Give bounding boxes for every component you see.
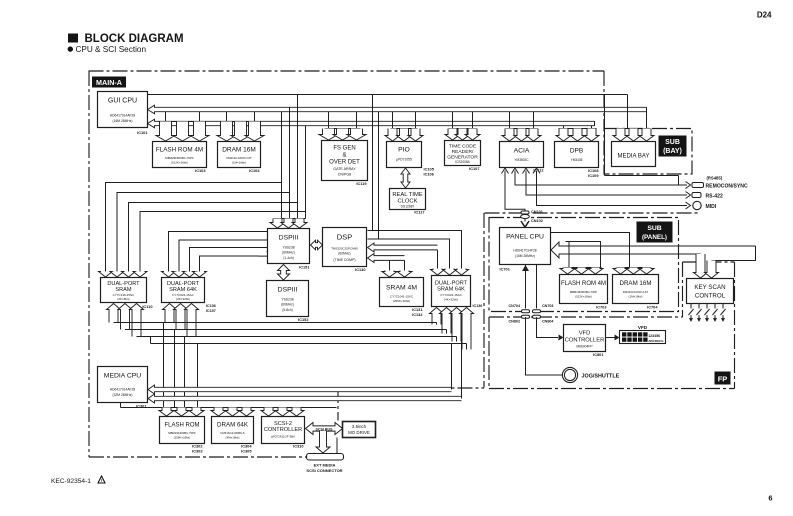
label IC117 [414, 210, 424, 215]
svg-text:(4K×32bit): (4K×32bit) [444, 298, 458, 302]
svg-text:(4M×16bit): (4M×16bit) [226, 436, 240, 440]
wire DP64KR bend b [446, 330, 448, 334]
svg-text:CN102: CN102 [531, 219, 543, 223]
memory FLASH ROM 4M panel IC703 [560, 275, 608, 304]
wire drop DSPIII d [305, 126, 307, 219]
wire comb MEDIA BAY [617, 128, 651, 130]
svg-text:KEY SCAN: KEY SCAN [694, 284, 725, 291]
wire L DP64KL a [169, 232, 268, 272]
wire lbus 329 [125, 329, 447, 331]
bus arrow KEYSCAN a [694, 254, 708, 278]
bus arrow DSPIII b [281, 219, 296, 229]
svg-text:CONTROLLER: CONTROLLER [264, 427, 302, 433]
wire media cpu stub [120, 403, 122, 408]
bus arrow FSGEN c [347, 129, 366, 141]
wire ACIA-CN101 [505, 171, 525, 212]
svg-text:(1-4ch): (1-4ch) [283, 256, 293, 260]
svg-text:IC151: IC151 [299, 265, 310, 270]
svg-text:MBM29F400BC-70PF: MBM29F400BC-70PF [168, 431, 196, 435]
memory DUAL-PORT SRAM 64K right IC136 [432, 276, 471, 307]
wire panel bus riser flash [568, 242, 570, 268]
svg-text:DSP: DSP [337, 233, 352, 242]
bus arrow FLASHmedia c [189, 408, 204, 417]
svg-text:(1M×16bit): (1M×16bit) [629, 295, 643, 299]
wire comb panel DRAM [617, 267, 651, 269]
bus arrow DP64KL up a [163, 304, 177, 323]
wire comb FLASH ROM 4M [159, 121, 204, 123]
bus arrow FLASH ROM b [173, 122, 192, 142]
wire ACIA out2 arrow [686, 192, 691, 199]
bus arrow DPB a [556, 129, 571, 142]
svg-text:MO DRIVE: MO DRIVE [348, 430, 370, 435]
wire hbus 202 [129, 203, 298, 272]
svg-text:BLOCK DIAGRAM: BLOCK DIAGRAM [85, 33, 184, 45]
border MAIN-A lower jog vertical [337, 388, 339, 421]
bus arrow TC b [455, 129, 470, 141]
label IC151 [299, 265, 310, 270]
label RS-422 [706, 194, 723, 200]
dsp DSPIII upper IC151 [268, 229, 310, 264]
svg-text:(60MHz): (60MHz) [282, 251, 295, 255]
wire nest N2 [368, 239, 450, 269]
bus arrow DRAM16M b [231, 122, 250, 142]
svg-text:(5-8ch): (5-8ch) [282, 308, 292, 312]
wire CN804 to VFD ctrl [537, 317, 559, 337]
bus arrow SCSI c [289, 408, 304, 417]
wire DP64KR bend d [466, 344, 468, 350]
svg-text:FLASH ROM 4M: FLASH ROM 4M [156, 147, 203, 154]
svg-text:MEDIA BAY: MEDIA BAY [618, 154, 650, 160]
label IC305 [241, 449, 252, 454]
svg-text:SRAM 4M: SRAM 4M [386, 285, 417, 292]
border MAIN-A top [89, 70, 605, 72]
wire ACIA out4 [537, 171, 688, 206]
wire bay sync drop [678, 176, 680, 186]
label IC101 [137, 130, 148, 135]
svg-text:HD6417014AF28: HD6417014AF28 [110, 114, 136, 118]
label IC152 [298, 317, 309, 322]
bus arrow into DSP lo [368, 254, 405, 263]
svg-text:IC130: IC130 [355, 267, 365, 272]
bus arrow DRAM64K b [225, 408, 240, 417]
wire nest A2 tap [389, 260, 391, 270]
svg-text:REAL TIME: REAL TIME [392, 192, 422, 198]
svg-text:IC110: IC110 [142, 304, 152, 309]
display VFD [620, 331, 666, 344]
bus arrow DP64KL c [183, 272, 197, 278]
svg-text:&: & [342, 153, 346, 159]
svg-text:EXT MEDIA: EXT MEDIA [314, 463, 336, 468]
svg-text:!: ! [101, 478, 102, 483]
wire L DP64KL c [190, 248, 259, 272]
svg-text:JOG/SHUTTLE: JOG/SHUTTLE [582, 374, 620, 380]
svg-text:(16M 28MHz): (16M 28MHz) [515, 254, 535, 258]
svg-text:(512K×16bit): (512K×16bit) [575, 295, 592, 299]
label IC131 [412, 307, 423, 312]
svg-text:(256K×16bit): (256K×16bit) [174, 436, 191, 440]
wire riser TIMECODE [453, 112, 473, 129]
wire ACIA out2 chevron [523, 168, 530, 174]
label IC703 [596, 305, 607, 310]
cpu PANEL CPU IC701 [500, 228, 551, 265]
svg-text:D24: D24 [757, 11, 772, 20]
wire ACIA out4 arrow [686, 202, 691, 209]
svg-text:HD6417014AF28: HD6417014AF28 [110, 388, 136, 392]
wire data bus bend [646, 107, 648, 112]
wire lbus 343 [151, 343, 467, 345]
wire drop media c [184, 337, 186, 408]
label IC310 [293, 444, 303, 449]
bus arrow DPB c [584, 129, 599, 142]
label CN703 [542, 304, 553, 308]
wire riser ACIA [510, 112, 534, 129]
label SUB (PANEL) [637, 222, 673, 243]
wire riser MEDIA BAY a [627, 95, 629, 129]
memory SRAM 4M IC131 IC132 [380, 278, 424, 307]
svg-text:READER/: READER/ [452, 149, 474, 155]
svg-text:MBM29F800BC-70PF: MBM29F800BC-70PF [570, 290, 598, 294]
bus arrow DPSRAM up b [118, 304, 132, 330]
svg-text:µPD72611GF-3BA: µPD72611GF-3BA [271, 435, 295, 439]
label IC106 [424, 172, 435, 177]
border MAIN-A right vertical [483, 213, 485, 388]
svg-text:IC107: IC107 [469, 166, 479, 171]
bus arrow SCSI a [261, 408, 276, 417]
bus arrow DP64KR up a [430, 308, 444, 325]
label IC119 [356, 181, 367, 186]
svg-text:123456: 123456 [648, 334, 660, 338]
svg-text:CN/PG8: CN/PG8 [338, 173, 351, 177]
svg-text:M66004FP: M66004FP [576, 345, 593, 349]
bus arrow DP64KL d [193, 272, 207, 278]
label IC112 [533, 168, 544, 173]
wire bay sync vertical [604, 95, 606, 176]
border FP bottom [489, 388, 735, 390]
wire ACIA out4 chevron [533, 168, 540, 174]
bus arrow DPSRAM up a [107, 304, 121, 323]
wire ctrl bus bend [594, 121, 596, 126]
bus arrow SCSI b [275, 408, 290, 417]
connector CN703 [533, 310, 541, 319]
gate-array FS GEN OVER DET IC119 [322, 141, 368, 181]
wire ACIA out1 arrow [686, 182, 691, 189]
bus arrow SRAM4M b [397, 271, 412, 278]
bus arrow MB b [626, 129, 641, 142]
svg-text:VFD: VFD [579, 331, 591, 337]
memory DUAL-PORT SRAM IC110 [101, 278, 147, 303]
svg-text:IC704: IC704 [647, 305, 658, 310]
svg-text:(16M 28MHz): (16M 28MHz) [113, 119, 133, 123]
svg-text:FLASH ROM: FLASH ROM [164, 423, 199, 429]
svg-text:IC104: IC104 [249, 168, 260, 173]
wire drop nest a [372, 95, 374, 231]
svg-text:FP: FP [718, 375, 728, 384]
label IC801 [593, 352, 604, 357]
wire arrow into PANEL CPU top [521, 221, 529, 227]
label IC704 [647, 305, 658, 310]
bus arrow DPB b [570, 129, 585, 142]
label CN101 [531, 210, 543, 214]
svg-text:IC152: IC152 [298, 317, 309, 322]
label SUB (BAY) [659, 136, 687, 157]
connector RS-422 [692, 193, 701, 198]
wire media ret a riser [451, 344, 453, 390]
wire comb panel FLASH [564, 267, 602, 269]
svg-text:IC136: IC136 [473, 304, 483, 308]
bus arrow FLASHp a [560, 268, 575, 275]
svg-text:YM3436: YM3436 [571, 158, 583, 162]
label FP [715, 372, 731, 385]
timecode TIME CODE READER GENERATOR IC107 [445, 141, 481, 166]
svg-text:MBM29F800BC-70PF: MBM29F800BC-70PF [165, 156, 194, 160]
svg-text:CN804: CN804 [542, 319, 554, 323]
wire riser MEDIA BAY b [646, 112, 648, 129]
wire hbus 211 [140, 212, 306, 272]
doc number KEC-92354-1 [51, 476, 105, 485]
label IC130 [355, 267, 365, 272]
svg-text:CONTROL: CONTROL [695, 293, 726, 300]
bus arrow DRAM64K c [239, 408, 254, 417]
wire ACIA out1 chevron [512, 168, 519, 174]
svg-text:(256K×16bit): (256K×16bit) [393, 299, 410, 303]
svg-text:IC305: IC305 [241, 449, 252, 454]
wire comb ACIA [506, 128, 538, 130]
label SCSI BUS [316, 427, 334, 431]
border SUB BAY region [604, 129, 692, 175]
bus arrow DSPIII-DSPIII [278, 265, 290, 281]
bus arrow DP64KR up d [460, 308, 474, 350]
svg-text:FS GEN: FS GEN [333, 146, 355, 152]
bus arrow into GUI CPU data [148, 105, 647, 114]
wire hbus 192 [117, 193, 290, 272]
bus arrow DRAM16M c [245, 122, 264, 142]
svg-text:IC101: IC101 [137, 130, 148, 135]
svg-text:SCSI CONNECTOR: SCSI CONNECTOR [306, 468, 342, 473]
svg-text:(2K×8bit): (2K×8bit) [117, 297, 129, 301]
bus arrow FLASHp c [588, 268, 603, 275]
bus arrow DPSRAM b [110, 272, 124, 278]
bus arrow DPSRAM c [122, 272, 136, 278]
svg-text:SRAM 64K: SRAM 64K [437, 287, 465, 293]
label CN802 [509, 319, 520, 323]
svg-text:GUI CPU: GUI CPU [108, 98, 137, 105]
wire panel down1 [525, 265, 527, 309]
wire drop media b [174, 330, 176, 408]
svg-text:KM416C1000CJ-6T: KM416C1000CJ-6T [623, 290, 649, 294]
svg-text:(PANEL): (PANEL) [642, 234, 667, 241]
page number 6 [768, 494, 772, 503]
wire panel bus 241 [566, 242, 601, 268]
memory DRAM 16M panel IC704 [613, 275, 659, 304]
svg-text:(60MHz): (60MHz) [281, 303, 294, 307]
bus arrow DRAM64K a [211, 408, 226, 417]
wire nest A1 drop [437, 250, 439, 269]
svg-text:ICS2008A: ICS2008A [455, 160, 470, 164]
bus arrow DP64KR a [431, 269, 445, 276]
svg-text:(60MHz): (60MHz) [338, 252, 350, 256]
encoder JOG/SHUTTLE [562, 367, 577, 382]
acia ACIA IC112 [500, 142, 544, 168]
wire panel bus 232 [551, 233, 630, 268]
bus arrow ACIA c [526, 129, 541, 142]
bus arrow DRAMp a [613, 268, 628, 275]
svg-text:CPU & SCI Section: CPU & SCI Section [76, 45, 147, 54]
bus arrow DP64KR up c [450, 308, 464, 342]
svg-text:ABCDEFG: ABCDEFG [648, 339, 664, 343]
controller VFD CONTROLLER IC801 [564, 325, 606, 352]
bus arrow KEYSCAN b [705, 261, 719, 279]
wire CN802 to JOG [526, 317, 563, 375]
svg-text:KM416C4100BS-6: KM416C4100BS-6 [220, 431, 244, 435]
border FP top left [489, 316, 683, 318]
bus arrow DPSRAM a [99, 272, 113, 278]
svg-text:IC107: IC107 [206, 309, 216, 313]
memory DRAM 64K IC304 IC305 [212, 417, 254, 444]
bus arrow DP64KL a [162, 272, 176, 278]
wire L DP64KL b [179, 240, 267, 272]
bus arrow FLASHmedia b [174, 408, 189, 417]
wire MO to connector [336, 438, 338, 454]
label IC136 [473, 304, 483, 308]
svg-text:µPD71055: µPD71055 [396, 158, 412, 162]
svg-text:REMOCON/SYNC: REMOCON/SYNC [706, 184, 748, 190]
svg-text:CN101: CN101 [531, 210, 543, 214]
wire comb TIMECODE [449, 128, 477, 130]
controller SCSI-2 CONTROLLER IC310 [262, 417, 305, 444]
wire arrow into PANEL CPU bottom [522, 265, 529, 271]
wire panel return hi [559, 245, 756, 247]
bus arrow into MEDIA CPU hi [148, 385, 452, 394]
cpu MEDIA CPU IC301 [98, 367, 148, 403]
svg-text:ACIA: ACIA [514, 148, 530, 155]
wire riser DPB [564, 126, 592, 129]
wire media comb [121, 407, 337, 409]
bus arrow SRAM4M a [382, 271, 397, 278]
svg-text:IC801: IC801 [593, 352, 604, 357]
label IC303 [192, 449, 203, 454]
wire DP64KR bend c [456, 337, 458, 342]
svg-text:VFD: VFD [638, 325, 648, 330]
bus arrow into MEDIA CPU lo [148, 394, 462, 403]
border MAIN-A right upper [603, 71, 605, 129]
switch array key scan [689, 304, 726, 322]
bus arrow MB a [613, 129, 628, 142]
bus arrow ACIA b [514, 129, 529, 142]
border MAIN-A lower jog horizontal [338, 387, 485, 389]
bus arrow EXT MEDIA [316, 431, 330, 453]
label IC105 [424, 167, 435, 172]
rtc REAL TIME CLOCK IC117 [390, 189, 426, 210]
border FP top right [683, 261, 735, 263]
bus arrow FLASH ROM c [190, 122, 209, 142]
wire panel return lo [559, 253, 701, 255]
wire hbus 182 [106, 183, 282, 272]
wire lbus 322 [114, 322, 437, 324]
memory DRAM 16M IC104 [218, 142, 261, 168]
connector RS485 [692, 183, 704, 188]
bus arrow MB c [639, 129, 654, 142]
bus arrow DP64KL up b [174, 304, 188, 330]
svg-text:SCSI BUS: SCSI BUS [316, 427, 334, 431]
label IC103 [195, 168, 206, 173]
bus arrow DP64KL b [172, 272, 186, 278]
dpb DPB IC108 [555, 142, 599, 168]
svg-text:YM3802C: YM3802C [514, 158, 529, 162]
bus arrow PIO c [408, 129, 423, 142]
wire comb PIO [391, 128, 418, 130]
bus arrow FSGEN b [333, 129, 352, 141]
svg-text:PIO: PIO [398, 147, 410, 154]
wire DP64KR bend a [436, 323, 438, 325]
label CN704 [509, 304, 521, 308]
wire comb FS GEN [325, 128, 361, 130]
svg-text:(BAY): (BAY) [663, 148, 682, 155]
svg-text:IC119: IC119 [356, 181, 367, 186]
bus arrow into GUI CPU ctrl [148, 119, 595, 128]
wire bay sync horizontal [605, 175, 679, 177]
svg-text:CN802: CN802 [509, 319, 520, 323]
border FP step vertical [682, 262, 684, 317]
svg-text:IC109: IC109 [588, 173, 599, 178]
svg-text:CN704: CN704 [509, 304, 521, 308]
svg-text:MEDIA CPU: MEDIA CPU [104, 373, 141, 380]
bus arrow into DSPIII left [259, 243, 275, 260]
label IC132 [412, 312, 423, 317]
svg-text:KEC-92354-1: KEC-92354-1 [51, 478, 91, 485]
bus arrow PIO b [397, 129, 412, 142]
svg-text:PANEL CPU: PANEL CPU [506, 234, 544, 241]
bus arrow PIO-RTC [401, 168, 410, 188]
bus arrow DSPIII a [270, 219, 285, 229]
svg-text:IC132: IC132 [412, 312, 423, 317]
wire panel return bend [712, 246, 756, 261]
border FP right [734, 262, 736, 389]
wire drop nest b [378, 112, 380, 239]
svg-text:FLASH ROM 4M: FLASH ROM 4M [561, 281, 606, 287]
bus arrow TC c [465, 129, 480, 141]
wire drop DSPIII c [297, 95, 299, 219]
svg-text:IC106: IC106 [206, 304, 216, 308]
svg-text:TMS320C32PCM60: TMS320C32PCM60 [331, 247, 358, 251]
wire drop media a [163, 323, 165, 408]
connector CN704 [522, 310, 530, 319]
label RS485 [707, 176, 723, 181]
label CN804 [542, 319, 554, 323]
svg-text:KM416C1200CJ-6T: KM416C1200CJ-6T [226, 156, 252, 160]
title BLOCK DIAGRAM [68, 33, 184, 45]
svg-text:DRAM 64K: DRAM 64K [217, 422, 249, 429]
bus arrow DP64KR up b [440, 308, 454, 334]
subtitle CPU & SCI Section [68, 45, 147, 54]
dsp DSPIII lower IC152 [267, 281, 309, 317]
bus arrow ACIA a [502, 129, 517, 142]
svg-text:SUB: SUB [665, 139, 680, 146]
label REMOCON/SYNC [706, 184, 748, 190]
bus arrow into PANEL CPU [551, 242, 559, 258]
label IC109 [588, 173, 599, 178]
label SCSI CONNECTOR [306, 468, 342, 473]
wire arrow into VFD ctrl [559, 335, 564, 341]
bus arrow SCSI BUS [306, 423, 343, 435]
svg-text:DSPIII: DSPIII [278, 287, 298, 294]
wire CN102-PANELCPU [524, 219, 526, 222]
wire comb DSPIII [274, 218, 306, 220]
label MAIN-A [92, 77, 126, 88]
svg-text:YSS238: YSS238 [281, 298, 293, 302]
wire riser FS GEN [329, 112, 357, 129]
svg-text:OVER DET: OVER DET [329, 160, 360, 166]
wire comb DPB [559, 128, 597, 130]
